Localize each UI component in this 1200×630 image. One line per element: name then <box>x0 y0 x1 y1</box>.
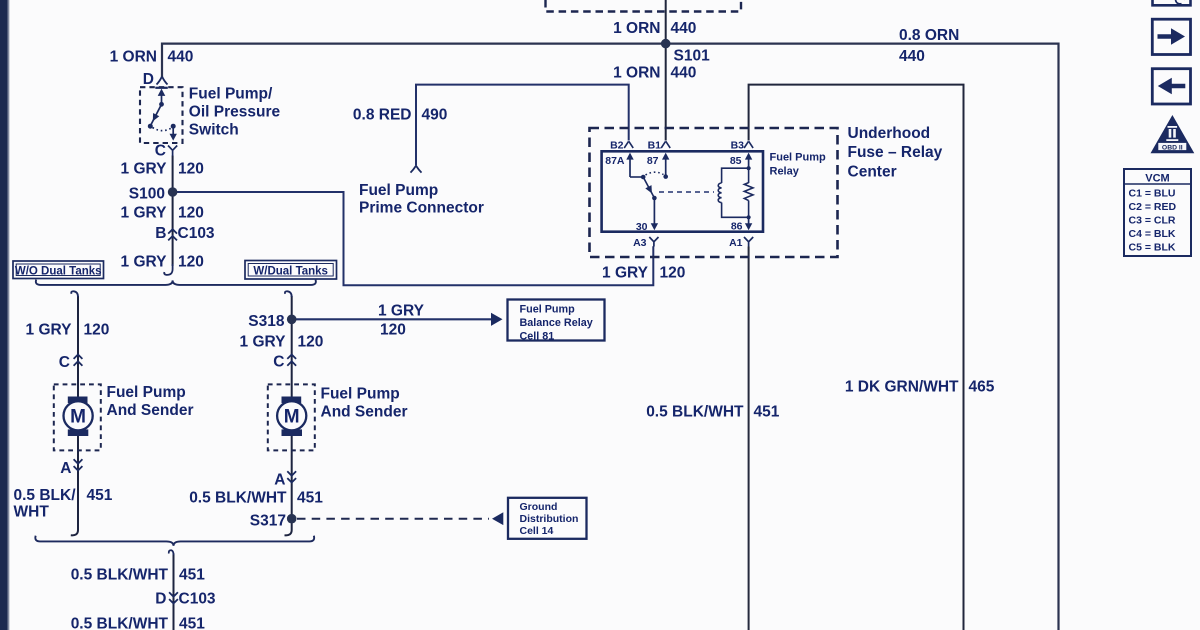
svg-text:And Sender: And Sender <box>107 402 194 419</box>
arrowhead (pointing left) at ground distribution box <box>492 512 503 525</box>
svg-text:0.5 BLK/WHT: 0.5 BLK/WHT <box>189 490 287 507</box>
svg-text:0.5 BLK/WHT: 0.5 BLK/WHT <box>646 404 744 421</box>
dotted arc between relay contacts <box>646 172 664 175</box>
svg-text:451: 451 <box>754 404 780 421</box>
svg-text:1 GRY: 1 GRY <box>602 265 649 282</box>
junction S101 <box>661 39 671 49</box>
relay switch: link from 87A to pivot <box>630 176 643 178</box>
svg-text:0.8 RED: 0.8 RED <box>353 107 412 124</box>
svg-text:B1: B1 <box>648 139 662 151</box>
underhood fuse-relay center dashed box <box>590 128 838 257</box>
svg-text:C103: C103 <box>178 225 215 242</box>
svg-text:1 ORN: 1 ORN <box>613 20 660 37</box>
svg-text:M: M <box>70 407 86 428</box>
svg-text:440: 440 <box>899 48 925 65</box>
svg-text:451: 451 <box>179 616 205 630</box>
wire 1 GRY 120 from switch pin C through S100 down to C103 and bracket <box>172 156 174 267</box>
svg-text:120: 120 <box>178 205 204 222</box>
relay blade with arrowhead to node 30 <box>643 177 654 198</box>
wire 0.8 RED 490: relay pin B2 up, left, down to prime connector <box>416 85 629 166</box>
svg-text:85: 85 <box>730 155 742 167</box>
svg-text:A: A <box>60 460 71 477</box>
wire 0.5 BLK/WHT 451 from ground bracket down to bottom edge (C103 D) <box>173 554 175 630</box>
W/O Dual Tanks tag box <box>13 261 104 279</box>
svg-text:C2 = RED: C2 = RED <box>1129 201 1177 213</box>
W/Dual Tanks tag box <box>245 261 337 280</box>
switch thrown contact node (left) <box>148 124 153 129</box>
svg-text:VCM: VCM <box>1145 172 1169 184</box>
svg-text:M: M <box>284 407 300 428</box>
svg-text:Oil Pressure: Oil Pressure <box>189 104 281 121</box>
relay pivot node <box>641 175 646 180</box>
tanks split bracket (brace under C103 spine) <box>36 280 316 285</box>
svg-text:86: 86 <box>731 221 743 233</box>
fuel pump / oil pressure switch dashed box <box>140 87 183 143</box>
svg-text:S100: S100 <box>129 186 165 203</box>
wire hook joining right branch to bracket <box>285 291 292 297</box>
wire 1 DK GRN/WHT 465: relay pin B3 up, right, down to bottom <box>749 85 964 630</box>
svg-text:Switch: Switch <box>189 122 239 139</box>
svg-text:1 GRY: 1 GRY <box>240 334 287 351</box>
forward arrow navigation box <box>1152 19 1190 54</box>
top-right navigation box (cut off at top edge) <box>1153 0 1191 5</box>
svg-text:490: 490 <box>422 107 448 124</box>
OBD II warning triangle <box>1152 117 1193 153</box>
svg-text:A1: A1 <box>729 237 743 249</box>
dashed wire from S317 to ground distribution cell 14 <box>297 518 489 520</box>
svg-text:D: D <box>155 591 166 608</box>
svg-text:Fuel Pump: Fuel Pump <box>107 384 186 401</box>
svg-text:120: 120 <box>178 161 204 178</box>
resistor zigzag <box>744 183 753 201</box>
wire 1 GRY 120 left branch from tanks bracket to left fuel pump <box>77 296 79 397</box>
svg-text:Fuel Pump: Fuel Pump <box>321 386 400 403</box>
svg-text:B2: B2 <box>610 139 624 151</box>
svg-text:30: 30 <box>636 221 648 233</box>
junction S317 <box>287 514 297 524</box>
svg-text:Center: Center <box>848 163 897 180</box>
svg-text:Fuel Pump: Fuel Pump <box>520 304 576 316</box>
svg-text:C103: C103 <box>179 591 216 608</box>
arrowhead to fuel pump balance relay <box>491 313 503 326</box>
svg-text:S318: S318 <box>248 313 285 330</box>
svg-text:451: 451 <box>87 487 113 504</box>
coil windings <box>718 183 721 203</box>
svg-text:87: 87 <box>647 155 659 167</box>
svg-text:Balance Relay: Balance Relay <box>520 317 593 329</box>
wire 1 ORN 440 main feed: from switch pin D up, across top, down right side <box>162 44 1059 630</box>
svg-text:440: 440 <box>168 49 194 66</box>
svg-text:A3: A3 <box>633 237 647 249</box>
svg-text:0.5 BLK/WHT: 0.5 BLK/WHT <box>71 616 169 630</box>
svg-text:Ground: Ground <box>520 501 558 513</box>
dashed mechanical link between switch and coil <box>659 191 714 193</box>
relay contact node under 87 <box>663 174 668 179</box>
svg-text:C: C <box>155 143 166 160</box>
svg-text:Underhood: Underhood <box>848 125 931 142</box>
relay blade end node <box>652 196 657 201</box>
coil top node <box>747 166 751 170</box>
svg-text:Cell 81: Cell 81 <box>520 331 555 343</box>
svg-text:440: 440 <box>671 20 697 37</box>
svg-text:D: D <box>143 71 154 88</box>
svg-text:C: C <box>59 354 70 371</box>
svg-text:1 ORN: 1 ORN <box>613 65 660 82</box>
svg-text:451: 451 <box>297 490 323 507</box>
left fuel pump and sender dashed box <box>54 384 101 450</box>
svg-text:Fuel Pump/: Fuel Pump/ <box>189 85 273 102</box>
svg-text:S101: S101 <box>674 48 711 65</box>
svg-text:And Sender: And Sender <box>321 404 408 421</box>
svg-text:87A: 87A <box>605 155 625 167</box>
wire 1 ORN 440 drop from top dashed box through S101 to relay pin B1 <box>665 0 667 141</box>
svg-text:Fuse – Relay: Fuse – Relay <box>848 144 943 161</box>
switch pivot node <box>159 102 164 107</box>
svg-text:Prime Connector: Prime Connector <box>359 199 484 216</box>
svg-text:1 GRY: 1 GRY <box>121 161 168 178</box>
svg-text:120: 120 <box>298 334 324 351</box>
pin C connector Y symbol <box>168 146 177 157</box>
svg-text:1 DK GRN/WHT: 1 DK GRN/WHT <box>845 379 959 396</box>
coil loop frame <box>722 168 749 217</box>
svg-text:WHT: WHT <box>14 504 50 521</box>
pin D connector chevron <box>157 77 168 85</box>
svg-text:Cell 14: Cell 14 <box>520 525 554 537</box>
svg-text:B: B <box>155 225 166 242</box>
svg-text:B3: B3 <box>731 139 745 151</box>
svg-text:C: C <box>273 354 284 371</box>
back arrow navigation box <box>1152 69 1190 104</box>
coil bottom node <box>747 215 751 219</box>
svg-text:451: 451 <box>179 567 205 584</box>
svg-text:0.5 BLK/: 0.5 BLK/ <box>14 487 77 504</box>
left dark margin bar <box>0 0 7 630</box>
svg-text:A: A <box>274 472 285 489</box>
switch blade with arrowhead <box>150 104 161 126</box>
svg-text:120: 120 <box>380 322 406 339</box>
svg-text:C3 = CLR: C3 = CLR <box>1129 215 1176 227</box>
left fuel pump motor <box>64 397 93 437</box>
right fuel pump motor <box>277 397 306 437</box>
switch fixed contact bar with up arrow <box>155 87 168 89</box>
svg-text:Fuel Pump: Fuel Pump <box>770 152 827 164</box>
wire hook joining left branch to bracket <box>71 291 78 297</box>
svg-text:465: 465 <box>969 379 995 396</box>
fuel pump prime connector chevron <box>411 166 422 173</box>
svg-text:Fuel Pump: Fuel Pump <box>359 182 438 199</box>
svg-text:120: 120 <box>84 322 110 339</box>
svg-text:0.8 ORN: 0.8 ORN <box>899 27 959 44</box>
wire hook at top of bottom output wire <box>169 550 174 555</box>
down arrow from output contact to pin C <box>172 128 174 136</box>
right fuel pump and sender dashed box <box>268 384 315 450</box>
wire 1 GRY 120 from S100 right, down, right to relay pin A3 <box>173 192 654 285</box>
wire 0.5 BLK/WHT 451 from left fuel pump down to ground bracket <box>71 436 78 536</box>
svg-text:1 GRY: 1 GRY <box>378 303 425 320</box>
wire 1 GRY 120 from S318 to fuel pump balance relay (arrow) <box>296 318 492 320</box>
svg-text:1 ORN: 1 ORN <box>110 49 157 66</box>
svg-text:1 GRY: 1 GRY <box>121 254 168 271</box>
svg-text:1 GRY: 1 GRY <box>26 322 73 339</box>
top component dashed box (cut off at top edge) <box>546 0 742 12</box>
svg-text:Relay: Relay <box>770 166 800 178</box>
wire 1 GRY 120 right branch from tanks bracket through S318 to right fuel pump <box>291 296 293 397</box>
fuel pump balance relay cell 81 box <box>508 300 605 343</box>
svg-text:120: 120 <box>178 254 204 271</box>
svg-text:C1 = BLU: C1 = BLU <box>1129 188 1176 200</box>
svg-text:1 GRY: 1 GRY <box>121 205 168 222</box>
svg-text:0.5 BLK/WHT: 0.5 BLK/WHT <box>71 567 169 584</box>
wire 0.5 BLK/WHT 451 from right fuel pump through S317 down to ground bracket <box>285 436 292 536</box>
junction S318 <box>287 315 297 325</box>
ground merge bracket (brace above C103 D) <box>35 536 314 546</box>
svg-text:120: 120 <box>660 265 686 282</box>
switch output contact node (right) <box>171 124 176 129</box>
svg-text:W/Dual Tanks: W/Dual Tanks <box>253 265 328 277</box>
ground distribution cell 14 box <box>508 498 587 539</box>
svg-text:W/O Dual Tanks: W/O Dual Tanks <box>15 265 102 277</box>
wire 0.5 BLK/WHT 451 from relay pin A1 down to bottom <box>748 247 750 630</box>
dotted arc between switch contacts <box>153 128 172 131</box>
junction S100 <box>168 187 178 197</box>
VCM connector legend table <box>1124 169 1191 256</box>
svg-text:S317: S317 <box>250 513 286 530</box>
svg-text:C4 = BLK: C4 = BLK <box>1129 228 1176 240</box>
fuel pump relay box <box>602 151 763 231</box>
svg-text:C5 = BLK: C5 = BLK <box>1129 242 1176 254</box>
svg-text:440: 440 <box>671 65 697 82</box>
wire curl at bottom of spine wire above tanks bracket <box>164 264 172 275</box>
svg-text:OBD II: OBD II <box>1162 144 1183 151</box>
svg-text:Distribution: Distribution <box>520 513 579 525</box>
relay terminal 30 arrow down <box>653 198 655 224</box>
